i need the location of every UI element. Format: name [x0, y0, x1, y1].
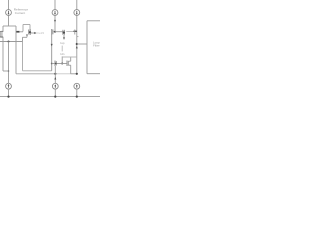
- svg-text:Filter: Filter: [93, 43, 100, 47]
- svg-text:Current: Current: [15, 11, 25, 15]
- svg-text:Idn: Idn: [60, 52, 65, 56]
- svg-text:Iref/2: Iref/2: [37, 31, 44, 35]
- svg-text:Iup: Iup: [60, 41, 65, 45]
